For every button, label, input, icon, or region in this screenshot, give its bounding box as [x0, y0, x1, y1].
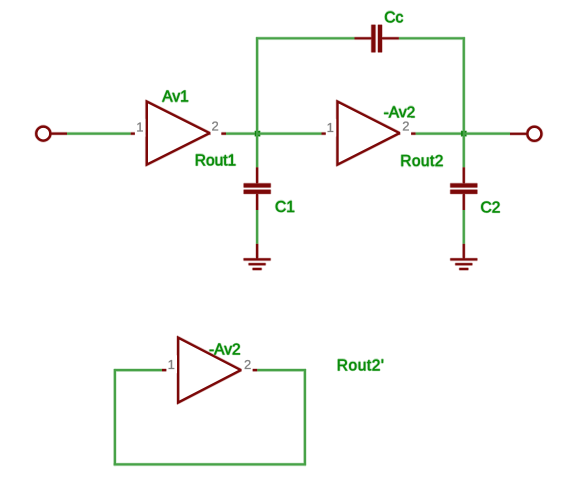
- wire node B up to feedback: [463, 37, 465, 133]
- wire node A up to feedback: [256, 37, 258, 133]
- svg-text:1: 1: [136, 119, 143, 134]
- capacitor C2 plates: [450, 183, 477, 187]
- amplifier U3 pin 2 lead: [241, 369, 257, 371]
- capacitor Cc right lead: [382, 37, 399, 39]
- amplifier U1 pin 1 lead: [131, 133, 147, 135]
- svg-text:2: 2: [212, 119, 219, 134]
- wire U3 right net: [257, 369, 306, 371]
- output port lead: [510, 133, 527, 135]
- ground 1 lead: [256, 244, 258, 259]
- wire U3 bottom horizontal: [114, 463, 306, 465]
- ground 2: [450, 259, 477, 269]
- svg-text:Rout2: Rout2: [400, 153, 444, 170]
- amplifier U2 pin 2 lead: [400, 133, 416, 135]
- wire net between U1 out and node A: [226, 133, 257, 135]
- capacitor C1 bottom lead: [256, 194, 258, 210]
- pin number 2 of U1: [211, 118, 222, 136]
- amplifier U1 pin 2 lead: [210, 133, 226, 135]
- wire feedback top right: [399, 37, 465, 39]
- ground 1: [244, 259, 271, 269]
- svg-text:1: 1: [327, 120, 334, 135]
- svg-text:2: 2: [402, 119, 409, 134]
- wire input net: [67, 133, 131, 135]
- capacitor C2 top lead: [463, 167, 465, 183]
- svg-text:Rout1: Rout1: [195, 152, 236, 169]
- wire U3 right vertical: [304, 369, 306, 466]
- svg-text:C2: C2: [481, 200, 501, 217]
- pin number 1 of U1: [135, 120, 146, 137]
- wire node B down to C2: [463, 134, 465, 168]
- op-amp U2 triangle: [338, 102, 400, 165]
- output port P2: [527, 127, 541, 141]
- svg-text:-Av2: -Av2: [209, 342, 241, 359]
- node A junction dot: [255, 131, 260, 136]
- op-amp U1 triangle: [147, 102, 210, 165]
- wire feedback top left: [256, 37, 355, 39]
- wire U3 left net: [115, 369, 162, 371]
- input port P1: [36, 127, 50, 141]
- pin number 2 of U2: [400, 118, 411, 136]
- capacitor C1 plates: [244, 183, 271, 187]
- op-amp U3 triangle: [178, 338, 241, 403]
- pin number 1 of U3: [166, 356, 177, 373]
- capacitor C1 top lead: [256, 167, 258, 183]
- wire node A to U2 input: [257, 133, 321, 135]
- capacitor Cc plates: [371, 25, 375, 53]
- capacitor Cc left lead: [355, 37, 372, 39]
- wire U3 left vertical: [114, 369, 116, 466]
- input port lead: [51, 133, 67, 135]
- wire node B to output port: [464, 133, 510, 135]
- node B junction dot: [461, 131, 466, 136]
- svg-text:Rout2': Rout2': [337, 357, 385, 374]
- pin number 1 of U2: [326, 120, 338, 137]
- svg-text:Cc: Cc: [384, 9, 403, 26]
- ground 2 lead: [463, 244, 465, 259]
- wire C2 to ground: [463, 210, 465, 244]
- wire net U2 out to node B: [416, 133, 464, 135]
- amplifier U2 pin 1 lead: [322, 133, 338, 135]
- pin number 2 of U3: [242, 354, 253, 372]
- capacitor C2 bottom lead: [463, 194, 465, 210]
- svg-text:Av1: Av1: [162, 89, 188, 106]
- wire C1 to ground: [256, 210, 258, 244]
- svg-text:C1: C1: [275, 199, 295, 216]
- svg-text:2: 2: [244, 357, 251, 372]
- wire node A down to C1: [256, 134, 258, 168]
- svg-text:1: 1: [168, 357, 175, 372]
- amplifier U3 pin 1 lead: [162, 369, 178, 371]
